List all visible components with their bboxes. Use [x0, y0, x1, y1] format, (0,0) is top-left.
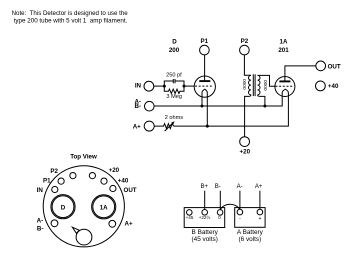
svg-text:+: + — [258, 216, 261, 222]
battery lead A+ — [255, 184, 263, 209]
socket 1A outer — [92, 195, 116, 219]
tube V2 grid (dashed) — [275, 85, 293, 87]
terminal A+ — [133, 121, 154, 131]
svg-text:A+: A+ — [255, 184, 263, 190]
B battery caption — [192, 229, 219, 243]
panel circle (top view) — [43, 166, 124, 247]
svg-text:P1: P1 — [43, 178, 51, 185]
wire P1 to V1 plate — [204, 55, 206, 81]
socket D outer — [51, 195, 75, 219]
svg-text:(6 volts): (6 volts) — [239, 236, 262, 243]
svg-text:P2: P2 — [50, 168, 58, 175]
top view terminal +20 — [89, 167, 119, 179]
svg-text:Note: This Detector is design: Note: This Detector is designed to use t… — [12, 10, 129, 17]
svg-text:1A: 1A — [100, 205, 108, 212]
transformer T1 core — [252, 74, 254, 96]
battery lead B+ — [200, 184, 208, 209]
terminal A- B- — [134, 98, 154, 111]
transformer T1 primary winding — [249, 75, 251, 94]
resistor R 3 Meg (bottom branch) — [164, 86, 184, 100]
transformer T1 secondary winding — [258, 75, 260, 94]
svg-text:A-: A- — [37, 218, 44, 225]
top view terminal IN — [37, 186, 58, 194]
svg-text:+45: +45 — [186, 215, 194, 220]
wire A- line to V2 filament — [154, 93, 282, 106]
svg-text:Top View: Top View — [70, 154, 97, 161]
socket 1A inner — [93, 196, 115, 218]
svg-text:0: 0 — [218, 215, 221, 220]
socket D inner — [52, 196, 74, 218]
tube V2 filament — [282, 89, 288, 93]
svg-text:D: D — [61, 205, 66, 212]
top view terminal P1 — [43, 178, 64, 185]
wire secondary bottom to A- line — [258, 95, 265, 106]
note text — [12, 10, 129, 24]
battery lead A- — [237, 184, 243, 209]
tube V1 grid (dashed) — [195, 85, 213, 87]
wire IN to grid leak — [154, 85, 165, 87]
svg-text:OUT: OUT — [124, 187, 137, 194]
wire P2 to transformer primary top — [244, 55, 251, 75]
terminal +40 — [316, 81, 339, 91]
svg-text:type 200 tube with 5 volt 1 a: type 200 tube with 5 volt 1 amp filament… — [14, 17, 128, 24]
A battery box — [235, 208, 265, 228]
terminal OUT — [316, 61, 341, 71]
tube V1 filament — [202, 89, 207, 93]
A battery terminal plus — [257, 209, 263, 222]
rheostat 2 ohms — [154, 115, 183, 131]
top view terminal +40 — [101, 178, 129, 185]
svg-text:B Battery: B Battery — [192, 229, 219, 236]
svg-text:200: 200 — [169, 47, 180, 54]
svg-text:+20: +20 — [240, 149, 251, 156]
rheostat knob pointer — [72, 227, 79, 233]
tube V2 (type 201 amplifier) envelope — [275, 77, 295, 97]
svg-text:A+: A+ — [133, 123, 141, 130]
label 1A 201 (tube V2 designator) — [278, 39, 289, 54]
svg-text:0000: 0000 — [242, 79, 248, 90]
tube V2 plate — [279, 80, 290, 82]
B battery terminal +22.5 — [199, 210, 211, 220]
wire grid leak to V1 grid — [184, 85, 194, 87]
terminal IN — [135, 81, 154, 91]
svg-text:D: D — [172, 39, 177, 46]
svg-text:P2: P2 — [241, 38, 249, 45]
top view terminal A+ — [109, 220, 133, 227]
svg-text:201: 201 — [278, 47, 289, 54]
svg-text:(45 volts): (45 volts) — [192, 236, 218, 243]
terminal P1 — [200, 38, 210, 55]
wire secondary top to V2 grid — [258, 75, 275, 86]
svg-text:+20: +20 — [109, 167, 120, 174]
svg-text:B-: B- — [134, 103, 141, 110]
top view terminal A- B- — [37, 218, 58, 233]
terminal P2 — [240, 38, 250, 55]
top view terminal P2 — [50, 168, 76, 179]
tube V1 (type 200 detector) envelope — [194, 76, 215, 97]
A battery caption — [237, 229, 264, 243]
svg-text:IN: IN — [135, 83, 142, 90]
junction dot secondary bottom on A- line — [263, 105, 266, 108]
B battery terminal 0 — [217, 210, 223, 220]
svg-text:A+: A+ — [125, 221, 133, 228]
svg-text:IN: IN — [37, 187, 44, 194]
B battery box — [184, 208, 225, 228]
wire V2 plate to OUT — [285, 66, 316, 82]
terminal +20 — [240, 137, 251, 156]
junction dot grid-leak right — [183, 85, 186, 88]
svg-text:B+: B+ — [200, 184, 208, 190]
wire primary bottom to +20 — [245, 95, 251, 137]
svg-text:0000: 0000 — [263, 80, 269, 91]
svg-text:+40: +40 — [118, 178, 129, 185]
A battery terminal minus — [237, 209, 243, 222]
svg-text:+22½: +22½ — [199, 214, 211, 220]
junction dot V1 right filament on A+ line — [206, 125, 209, 128]
svg-text:250 pf: 250 pf — [166, 72, 182, 78]
wire V1 filament right leg — [206, 93, 208, 127]
tube V1 plate — [199, 80, 210, 82]
jumper wire B- to A- — [220, 204, 239, 210]
svg-text:3 Meg: 3 Meg — [166, 94, 182, 100]
svg-text:+40: +40 — [328, 83, 339, 90]
svg-text:P1: P1 — [201, 38, 209, 45]
svg-text:2 ohms: 2 ohms — [165, 115, 184, 121]
junction dot V1 left filament on A- line — [201, 105, 204, 108]
battery lead B- — [215, 184, 221, 209]
rheostat knob — [76, 229, 92, 245]
B battery terminal +45 — [186, 210, 194, 220]
label D 200 (tube V1 designator) — [169, 39, 180, 54]
svg-text:A Battery: A Battery — [237, 229, 264, 236]
svg-text:B-: B- — [215, 184, 221, 190]
junction dot grid-leak left — [163, 85, 166, 88]
wire A+ line to V2 filament — [174, 93, 289, 127]
top view terminal OUT — [110, 185, 137, 194]
svg-text:OUT: OUT — [328, 63, 341, 70]
svg-text:1A: 1A — [280, 39, 288, 46]
capacitor C 250 pf (top branch) — [164, 72, 184, 86]
svg-text:B-: B- — [37, 226, 44, 233]
svg-text:A-: A- — [237, 184, 243, 190]
wire V1 filament left leg — [201, 93, 203, 106]
